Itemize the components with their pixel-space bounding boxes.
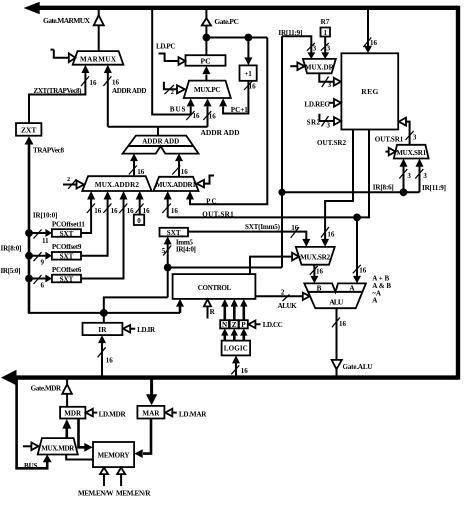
svg-text:SXT(Imm5): SXT(Imm5)	[245, 223, 281, 231]
wire MAR output to MEMORY	[134, 419, 151, 459]
svg-text:MEM.EN/R: MEM.EN/R	[116, 489, 151, 497]
wire MUX.DR output to REG DR input (3)	[319, 73, 341, 89]
label ADDR ADD (to MUX.PC wire)	[201, 128, 241, 137]
tri-state gate Gate.MDR	[62, 379, 72, 407]
register file REG	[341, 53, 398, 129]
junction IR rail branch node	[278, 189, 285, 196]
label ADDR ADD (marmux input wire)	[112, 87, 147, 95]
svg-text:TRAPVec8: TRAPVec8	[33, 147, 64, 155]
label LD.IR and input triangle	[123, 325, 156, 334]
wire MUX.ADDR2 select (2)	[63, 176, 84, 189]
wire 0 to MUX.ADDR2 input4 (16)	[136, 191, 151, 215]
svg-text:IR[5:0]: IR[5:0]	[1, 267, 21, 275]
wire IR[8:0] into SXT (9)	[29, 252, 52, 267]
svg-text:MDR: MDR	[64, 409, 82, 417]
svg-text:5: 5	[162, 247, 166, 255]
label OUT.SR1 (near REG)	[375, 136, 404, 144]
svg-text:ADDR ADD: ADDR ADD	[201, 128, 241, 137]
wire IR main vertical (IR[11:9] rail)	[281, 36, 283, 267]
svg-text:ADDR ADD: ADDR ADD	[112, 87, 147, 95]
wire SXT Imm5 output to MUX.SR2 left input (16)	[188, 224, 310, 247]
svg-text:ALU: ALU	[329, 298, 344, 307]
svg-text:3: 3	[413, 134, 417, 142]
svg-text:16: 16	[127, 207, 135, 215]
svg-text:IR: IR	[98, 325, 107, 334]
junction +1 branch node	[245, 34, 253, 42]
wire ADDR ADD to MUX.PC middle input (16)	[203, 98, 216, 126]
label LD.MDR and input triangle	[86, 409, 127, 419]
wire BUS tap to MUX.PC (BUS, 16)	[152, 9, 200, 120]
wire ZXT output to MARMUX left input (16)	[29, 65, 97, 123]
svg-text:BUS: BUS	[24, 462, 38, 470]
register MDR	[60, 407, 85, 419]
svg-text:BUS: BUS	[170, 106, 186, 114]
wire ALUK select from CONTROL (2)	[255, 288, 309, 310]
wire LD.PC hook into PC	[159, 54, 186, 65]
svg-text:Gate.MARMUX: Gate.MARMUX	[43, 16, 91, 25]
svg-text:16: 16	[316, 267, 324, 275]
svg-text:OUT.SR1: OUT.SR1	[202, 211, 234, 219]
component constant 0 box	[134, 215, 144, 225]
wire SXT9 output to MUX.ADDR2 input2 (16)	[81, 191, 118, 256]
svg-text:3: 3	[407, 172, 411, 180]
sign-extend SXT (Imm5)	[160, 228, 189, 237]
register MAR	[137, 406, 164, 419]
wire MUX.MDR output to MDR	[62, 419, 71, 438]
sign-extend SXT (PCOffset11)	[52, 229, 81, 238]
wire IR[11:9] to MUX.DR (3)	[282, 36, 317, 59]
tri-state gate Gate.PC	[202, 9, 211, 55]
svg-text:IR[10:0]: IR[10:0]	[33, 212, 58, 220]
wire MEMORY output to MUX.MDR	[66, 455, 93, 460]
svg-text:IR[8:6]: IR[8:6]	[373, 183, 394, 191]
wire OUT.SR2 from REG to MUX.SR2 right input (16)	[321, 130, 353, 247]
wire MUX.MDR select stub	[23, 443, 39, 451]
wire MUX.SR2 select from CONTROL	[250, 253, 299, 274]
svg-text:MUX.SR2: MUX.SR2	[300, 253, 330, 261]
label PCOffset11	[52, 220, 85, 228]
junction PC output node	[203, 34, 211, 42]
wire MUX.ADDR1 select hook	[197, 176, 214, 188]
svg-text:A: A	[349, 285, 355, 293]
wire OUT.SR1 run from REG	[168, 130, 369, 218]
wire IR to CONTROL (arrow up)	[176, 299, 184, 313]
label LD.PC	[156, 42, 176, 50]
label ZXT(TRAPVec8)	[34, 87, 83, 95]
wire BUS down to MAR	[146, 379, 157, 405]
wire MUX.SR1 output into REG SR1 select (3)	[399, 118, 417, 145]
wire OUT.SR1 into MUX.ADDR1 left input (16)	[162, 191, 178, 217]
svg-text:16: 16	[249, 82, 257, 90]
wire BUS to LOGIC (16)	[231, 355, 248, 375]
adder ADDR ADD	[123, 136, 199, 154]
svg-text:1: 1	[323, 29, 327, 37]
svg-text:OUT.SR1: OUT.SR1	[375, 136, 404, 144]
junction IR[8:6] node	[400, 188, 408, 196]
svg-text:MEMORY: MEMORY	[98, 451, 130, 459]
svg-text:R: R	[210, 308, 216, 316]
memory MEMORY	[93, 442, 134, 467]
label IR[11:9] right	[422, 184, 446, 192]
wire OUT.SR1 branch to ALU A (16)	[353, 217, 367, 283]
tri-state gate Gate.ALU	[332, 360, 342, 377]
svg-text:SXT: SXT	[167, 229, 181, 237]
register IR	[83, 323, 123, 335]
svg-text:3: 3	[313, 44, 317, 52]
svg-text:16: 16	[327, 231, 335, 239]
svg-text:IR[4:0]: IR[4:0]	[176, 245, 196, 253]
svg-text:MUX.SR1: MUX.SR1	[396, 149, 426, 157]
label PCOffset9	[52, 243, 82, 251]
register PC	[186, 55, 226, 65]
wire ALU output to Gate.ALU (16)	[332, 308, 347, 360]
label LD.CC and input triangle	[248, 321, 282, 330]
svg-text:16: 16	[90, 79, 98, 87]
wire MUX.ADDR2 output to adder (16)	[129, 154, 145, 177]
svg-text:PCOffset6: PCOffset6	[52, 266, 82, 274]
svg-text:ALUK: ALUK	[278, 302, 297, 310]
label LD.MAR and input triangle	[165, 409, 207, 419]
wire +1 output to MUX.PC (PC+1, 16)	[219, 81, 256, 114]
svg-text:LD.MDR: LD.MDR	[99, 410, 127, 418]
svg-text:16: 16	[137, 168, 145, 176]
svg-text:16: 16	[241, 367, 249, 375]
svg-text:MUX.PC: MUX.PC	[194, 86, 221, 94]
svg-text:SXT: SXT	[60, 230, 74, 238]
svg-text:IR[8:0]: IR[8:0]	[1, 244, 22, 252]
wire right BUS (thick vertical)	[456, 6, 460, 380]
svg-text:Gate.PC: Gate.PC	[214, 17, 239, 26]
label PC (wire)	[206, 198, 217, 206]
label TRAPVec8	[33, 147, 64, 155]
svg-text:16: 16	[193, 112, 201, 120]
component R7 constant 1	[321, 28, 331, 38]
label R7	[321, 18, 330, 26]
svg-text:Z: Z	[232, 321, 237, 329]
svg-text:LD.PC: LD.PC	[156, 42, 176, 50]
junction IR[8:0] node	[25, 252, 33, 260]
mux MARMUX	[73, 51, 124, 65]
label IR[11:9] top	[278, 29, 302, 37]
svg-text:16: 16	[339, 320, 347, 328]
svg-text:16: 16	[370, 39, 378, 47]
svg-text:Gate.MDR: Gate.MDR	[31, 385, 62, 393]
wire SXT6 output to MUX.ADDR2 input3 (16)	[81, 191, 134, 279]
svg-text:A: A	[372, 297, 378, 305]
wire bottom BUS (thick, arrow left)	[1, 370, 458, 386]
svg-text:MUX.DR: MUX.DR	[305, 63, 335, 71]
register ZXT	[16, 123, 41, 136]
svg-text:ZXT: ZXT	[21, 126, 36, 135]
label IR[8:6]	[373, 183, 394, 191]
svg-text:3: 3	[327, 44, 331, 52]
wire ADDR-ADD to MARMUX right input (16)	[103, 65, 119, 127]
svg-text:16: 16	[143, 207, 151, 215]
mux MUX.SR2	[296, 247, 335, 265]
label IR[8:0]	[1, 244, 22, 252]
svg-text:16: 16	[209, 113, 217, 121]
label ALU functions A + B / A & B / ~A / A	[372, 274, 391, 304]
svg-text:Gate.ALU: Gate.ALU	[343, 363, 373, 371]
junction IR[10:0] node	[25, 229, 33, 237]
label MEM.EN/W	[78, 489, 114, 497]
mux MUX.SR1	[394, 145, 429, 159]
wire R7 to MUX.DR (3)	[321, 37, 331, 59]
wire MUX.DR select stub	[290, 62, 304, 70]
wire top BUS (thick, arrow left)	[24, 2, 458, 15]
svg-text:16: 16	[181, 168, 189, 176]
svg-text:ZXT(TRAPVec8): ZXT(TRAPVec8)	[34, 87, 83, 95]
svg-text:16: 16	[94, 207, 102, 215]
label PCOffset6	[52, 266, 82, 274]
label SXT(Imm5)	[245, 223, 281, 231]
label LD.REG and input triangle	[304, 99, 341, 108]
label IR[5:0]	[1, 267, 21, 275]
svg-text:LD.REG: LD.REG	[304, 100, 330, 108]
flipflop Z	[230, 320, 239, 329]
wire BUS down to MUX.MDR (BUS)	[17, 379, 52, 470]
wire MUX.SR1 left input IR[8:6] (3)	[399, 159, 411, 193]
svg-text:0: 0	[137, 217, 141, 225]
junction IR[5:0] node	[25, 275, 33, 283]
wire +1 input from PC node	[244, 38, 252, 66]
svg-text:16: 16	[111, 207, 119, 215]
wire IR[10:0] into SXT (11)	[29, 229, 52, 245]
mux MUX.DR	[303, 59, 336, 73]
label IR[4:0]	[176, 245, 196, 253]
svg-text:16: 16	[291, 224, 299, 232]
junction IR output node	[100, 309, 108, 317]
svg-text:PC: PC	[206, 198, 217, 206]
wire IR distribution: SXT stub down, across to IR, rail across to CONTROL	[28, 297, 180, 322]
svg-text:PCOffset9: PCOffset9	[52, 243, 82, 251]
wire BUS to IR (16)	[98, 335, 114, 375]
wire ADDR ADD output distribution	[108, 127, 208, 136]
wire SXT11 output to MUX.ADDR2 input1 (16)	[81, 191, 102, 233]
svg-text:OUT.SR2: OUT.SR2	[317, 139, 346, 147]
svg-text:LD.CC: LD.CC	[263, 321, 283, 329]
mux MUX.PC	[184, 81, 231, 98]
svg-text:MAR: MAR	[142, 409, 160, 417]
wire IR[5:0] into SXT (6)	[29, 275, 52, 290]
svg-text:MEM.EN/W: MEM.EN/W	[78, 489, 114, 497]
wire IR net to IR[11:9] rail	[168, 267, 282, 269]
svg-text:LOGIC: LOGIC	[224, 345, 248, 353]
label Imm5	[176, 239, 193, 247]
svg-text:N: N	[222, 321, 228, 329]
label IR[10:0]	[33, 212, 58, 220]
svg-text:+1: +1	[244, 70, 252, 78]
svg-text:ADDR ADD: ADDR ADD	[142, 138, 179, 146]
control unit CONTROL	[173, 274, 256, 299]
svg-text:B: B	[317, 284, 322, 292]
svg-text:PC: PC	[201, 56, 211, 65]
wire MEM.EN/R control input	[117, 468, 125, 487]
svg-text:16: 16	[359, 267, 367, 275]
wire PC output tee to +1 and PC net	[206, 37, 267, 39]
svg-text:2: 2	[67, 176, 70, 183]
svg-text:16: 16	[106, 357, 114, 365]
wire MUX.SR1 right input IR[11:9] (3)	[415, 159, 427, 193]
svg-text:16: 16	[171, 207, 179, 215]
svg-text:2: 2	[281, 288, 285, 296]
svg-text:3: 3	[328, 81, 332, 89]
junction IR net node at SXT Imm5	[164, 264, 172, 272]
svg-text:3: 3	[327, 121, 331, 129]
flipflop N	[220, 320, 229, 329]
alu ALU	[304, 283, 366, 308]
flipflop P	[239, 320, 248, 329]
svg-text:MARMUX: MARMUX	[80, 55, 117, 63]
wire MEM.EN/W control input	[100, 468, 108, 487]
wire MUX.SR1 select stub	[385, 148, 395, 156]
svg-text:R7: R7	[321, 18, 330, 26]
svg-text:REG: REG	[361, 87, 378, 96]
label Gate.PC	[214, 17, 239, 26]
label Gate.MDR	[31, 385, 62, 393]
label Gate.MARMUX	[43, 16, 91, 25]
label OUT.SR2	[317, 139, 346, 147]
svg-text:P: P	[241, 321, 246, 329]
component +1 incrementer	[240, 65, 257, 80]
svg-text:LD.IR: LD.IR	[137, 326, 156, 334]
wire BUS tap into REG top (16)	[363, 9, 377, 53]
wire IR rail into ZXT (arrow up)	[25, 136, 34, 313]
sign-extend SXT (PCOffset9)	[52, 252, 81, 261]
sign-extend SXT (PCOffset6)	[52, 275, 81, 284]
svg-text:MUX.ADDR2: MUX.ADDR2	[95, 181, 139, 189]
mux MUX.MDR	[38, 438, 78, 454]
svg-text:3: 3	[423, 172, 427, 180]
svg-text:MUX.ADDR1: MUX.ADDR1	[156, 181, 196, 189]
wire MUX.PC select (2)	[164, 82, 185, 96]
wire IR[4:0] into SXT Imm5 (5)	[162, 236, 172, 297]
svg-text:MUX.MDR: MUX.MDR	[41, 445, 75, 453]
label OUT.SR1 (wire)	[202, 211, 234, 219]
wire MARMUX select hook	[51, 50, 76, 63]
svg-text:11: 11	[42, 237, 49, 245]
svg-text:SXT: SXT	[60, 275, 74, 283]
wire IR rail to SR1 mux inputs	[282, 191, 420, 193]
svg-text:PC+1: PC+1	[231, 106, 248, 114]
wire MUX.ADDR1 output to adder (16)	[172, 154, 188, 177]
wire MUX.PC output into PC	[202, 66, 210, 81]
label SR2 and input (3)	[307, 114, 341, 130]
wire MUX.SR2 output to ALU B (16)	[310, 265, 324, 284]
logic block LOGIC	[222, 341, 251, 356]
tri-state gate Gate.MARMUX	[94, 9, 104, 51]
svg-text:CONTROL: CONTROL	[198, 284, 232, 292]
wire MDR output to MEMORY	[79, 419, 93, 452]
svg-text:2: 2	[171, 89, 174, 96]
svg-text:IR[11:9]: IR[11:9]	[422, 184, 446, 192]
wire R input to CONTROL	[204, 299, 216, 318]
svg-text:PCOffset11: PCOffset11	[52, 220, 85, 228]
svg-text:16: 16	[112, 78, 120, 86]
wire PC into MUX.ADDR1 right input	[186, 38, 267, 205]
label MEM.EN/R	[116, 489, 151, 497]
label Gate.ALU	[343, 363, 373, 371]
mux MUX.ADDR1	[154, 177, 199, 191]
svg-text:SXT: SXT	[60, 253, 74, 261]
svg-text:6: 6	[41, 281, 45, 289]
wire LOGIC to NZP arrows	[221, 328, 247, 340]
svg-text:9: 9	[41, 259, 45, 267]
svg-text:LD.MAR: LD.MAR	[179, 410, 207, 418]
junction OUT.SR1 to ALU branch	[353, 214, 361, 222]
wire NZP to CONTROL arrows	[221, 299, 247, 320]
mux MUX.ADDR2	[82, 176, 151, 191]
